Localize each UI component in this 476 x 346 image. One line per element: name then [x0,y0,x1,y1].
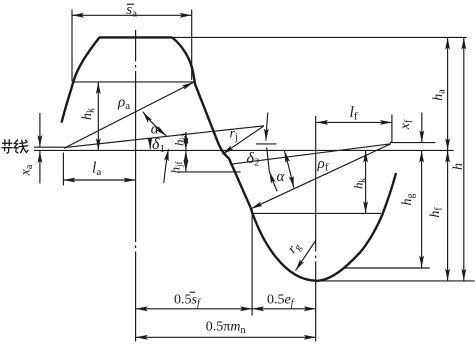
top line of next tooth right [390,142,435,144]
right flank of tooth with protuberance (thick profile) [172,37,250,207]
root bottom line [317,280,475,282]
svg-text:α: α [277,169,286,185]
dimension line sa-bar [72,14,192,16]
space centerline (dash-dot) [315,116,317,342]
dimension line lf [316,121,392,123]
dimension xa upper arrow [39,113,41,147]
dimension h [463,38,465,281]
hk level line left [73,81,193,83]
dimension line 0.5ef [252,308,316,310]
dimension xf upper arrow [421,113,423,143]
character jie (U+8282) [2,140,12,153]
horizontal reference tick [256,143,277,145]
rho-f leader line with arrow [251,144,391,209]
dimension line 0.5sf-bar [136,308,252,310]
svg-text:xf: xf [398,119,415,130]
label jie xian (Chinese: pitch line), hand drawn glyphs [2,140,28,153]
svg-text:hf: hf [428,207,445,218]
svg-text:α: α [151,122,160,138]
svg-text:hk: hk [80,108,97,120]
delta1 line [64,126,264,148]
svg-text:0.5sf: 0.5sf [174,293,201,310]
svg-text:hg: hg [400,194,417,206]
pitch line (jie xian) [34,149,454,151]
dimension h-ja [185,132,187,150]
character xian (U+7EBF) [14,140,28,153]
root arc rg (thick profile) [250,173,396,281]
svg-text:hja: hja [172,133,189,146]
dimension line 0.5 pi mn [136,336,316,338]
delta1 short angle arrow [149,139,151,150]
svg-text:hk: hk [351,178,368,190]
svg-text:ha: ha [431,89,448,101]
hg bottom level line [344,267,430,269]
dimension hg [421,151,423,268]
dimension xa lower arrow [39,151,41,184]
alpha right angle arc [284,151,293,188]
tooth top flat (thick profile) [99,36,172,38]
dimension sa-bar extension line right [191,10,193,81]
delta2 line [230,144,391,165]
svg-text:δ1: δ1 [152,136,165,155]
alpha left angle arc [143,112,166,136]
delta1 angle arc right with down arrow [266,113,268,141]
delta2 measuring arc below tick (arrow part) [269,172,277,192]
dimension hk left [97,82,99,150]
h-jf bottom level line [178,171,241,173]
svg-text:rg: rg [285,239,304,257]
svg-text:ρa: ρa [117,95,130,113]
svg-text:ρf: ρf [317,156,329,174]
svg-text:hjf: hjf [168,161,185,173]
svg-text:h: h [451,163,466,170]
dimension sa-bar extension line left [71,10,73,82]
dimension hk right [365,151,367,214]
rg leader arrow [296,240,317,271]
dimension line la [63,179,135,181]
extension line lf right [391,115,393,143]
rj leader arrow [222,126,264,154]
extension line ef left [251,209,253,316]
svg-text:0.5πmn: 0.5πmn [206,320,246,337]
delta2 small arc left of center [164,149,169,183]
svg-text:δ2: δ2 [247,150,260,169]
svg-text:xa: xa [19,164,36,176]
hk level line right [251,212,381,214]
dimension h-jf [185,151,187,172]
delta2 measuring arc below tick (tail) [267,148,270,172]
tooth centerline (dash-dot) [135,30,137,342]
dimension hf [447,151,449,281]
svg-text:0.5ef: 0.5ef [267,293,295,310]
extension line la left [62,153,64,186]
left flank of tooth (thick profile) [62,37,100,122]
svg-text:lf: lf [350,104,358,123]
dimension ha [447,38,449,151]
svg-text:la: la [92,159,101,178]
datum short line above pitch line [34,146,65,148]
rho-a leader line with arrow [64,82,194,148]
top reference line [172,36,467,38]
